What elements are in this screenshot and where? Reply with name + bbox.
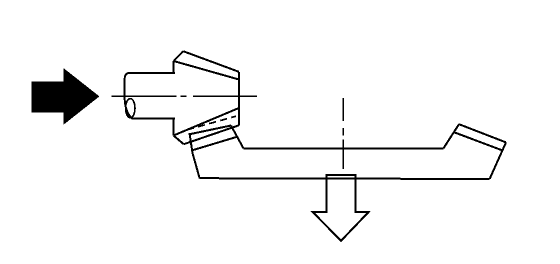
valve cone: left vertical edge (lower segment) [173,119,175,136]
vertical dash-dot centerline (outlet axis) [342,98,344,169]
valve cone: top outer edge [183,51,239,72]
valve cone: hidden bore line (dashed) [187,116,236,130]
pipe bore (end ellipse) [126,99,135,118]
horizontal dash-dot centerline (pipe axis) [112,95,258,97]
valve cone: top inner edge [174,61,239,80]
neck left edge [190,133,200,178]
spout trough: right end edge [490,142,506,178]
neck lower wall line [192,137,237,151]
valve cone: bottom outer edge [184,125,239,144]
valve cone: top chamfer [174,51,184,61]
spout trough: right rim inner line [455,132,503,150]
spout trough: right rim outer line [459,124,506,142]
spout trough: top edge [244,147,444,149]
spout trough: bottom edge (passes in front of arrow stem) [200,177,490,180]
outlet flow arrow (hollow, pointing down) [313,175,369,241]
neck right edge [231,126,244,149]
valve cone: bottom inner edge [174,108,239,136]
valve cone: bottom chamfer [174,136,184,145]
spout trough: right end up-slant [443,124,459,148]
supply pipe (cylinder) outline [125,73,175,119]
inlet flow arrow (solid black, pointing right) [31,68,99,125]
valve cone: right vertical edge [238,72,240,126]
valve cone: left vertical edge (upper segment) [173,61,175,73]
neck upper wall line [190,126,231,135]
